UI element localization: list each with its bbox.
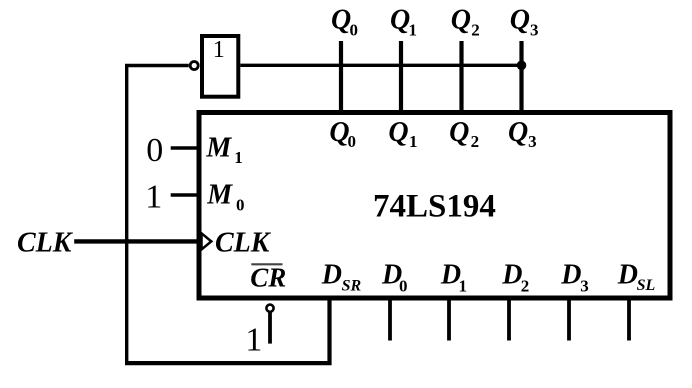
svg-text:1: 1 [409,21,418,40]
svg-text:1: 1 [234,148,243,167]
svg-text:D: D [560,260,581,291]
svg-text:SR: SR [342,277,362,294]
svg-text:D: D [501,260,522,291]
svg-text:0: 0 [146,132,163,169]
svg-text:1: 1 [459,277,468,296]
svg-text:Q: Q [508,117,528,148]
svg-text:Q: Q [390,5,410,36]
svg-text:CR: CR [250,263,286,293]
svg-text:Q: Q [510,5,530,36]
svg-text:Q: Q [331,5,351,36]
svg-text:2: 2 [521,277,530,296]
svg-text:D: D [617,260,638,291]
svg-text:1: 1 [213,37,225,63]
svg-text:0: 0 [348,132,357,151]
svg-text:0: 0 [399,277,408,296]
svg-text:SL: SL [637,277,656,294]
svg-text:3: 3 [530,21,539,40]
svg-text:Q: Q [388,117,408,148]
svg-text:2: 2 [471,21,480,40]
svg-text:CLK: CLK [17,227,74,258]
svg-text:1: 1 [409,132,418,151]
svg-text:Q: Q [451,5,471,36]
svg-text:CLK: CLK [215,228,272,259]
svg-text:0: 0 [350,21,359,40]
svg-text:74LS194: 74LS194 [373,189,496,225]
svg-text:1: 1 [245,321,262,358]
svg-text:M: M [205,133,232,164]
svg-text:3: 3 [580,277,589,296]
svg-text:1: 1 [145,178,162,215]
svg-text:0: 0 [236,195,245,214]
svg-text:2: 2 [471,132,480,151]
svg-text:D: D [321,260,342,291]
svg-text:Q: Q [449,117,469,148]
svg-text:M: M [206,179,233,210]
svg-text:3: 3 [528,132,537,151]
